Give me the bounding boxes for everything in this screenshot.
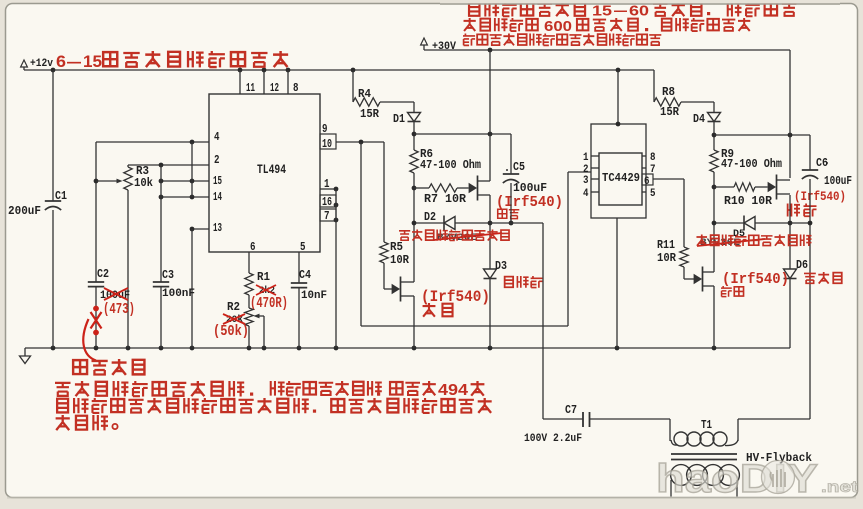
- node R7 junction: [412, 186, 417, 191]
- resistor R9: [710, 150, 718, 172]
- resistor R8: [653, 70, 655, 102]
- svg-text:D2: D2: [424, 210, 436, 224]
- wire C3 bottom: [160, 287, 162, 348]
- svg-text:(Irf540): (Irf540): [421, 288, 490, 306]
- wire C2 bottom (audio inject): [95, 287, 97, 348]
- power symbol +30V: [421, 38, 428, 45]
- svg-text:R8: R8: [662, 85, 675, 99]
- wire source A down: [489, 195, 491, 269]
- wire +30V to drain A: [489, 50, 491, 181]
- wire pin1 stub: [320, 188, 336, 190]
- wire C3 top: [160, 165, 162, 282]
- audio input mark: red dots and X on C2 wire: [93, 306, 99, 312]
- node +30V drop crossing: [488, 132, 493, 137]
- node drainC crossing: [788, 133, 793, 138]
- note bottom paragraph line2: [57, 399, 68, 413]
- wire pin4 line: [96, 141, 209, 143]
- node pin11 junction: [238, 68, 243, 73]
- svg-text:15R: 15R: [360, 107, 380, 121]
- transformer T1 primary: [669, 419, 671, 441]
- wire D6 to ground-rail end: [789, 279, 791, 349]
- watermark haoDIY.net: [656, 457, 859, 501]
- svg-text:100V 2.2uF: 100V 2.2uF: [524, 433, 582, 445]
- wire pin13 to ground: [191, 229, 193, 348]
- wire drain B up: [413, 278, 415, 282]
- diode D4: [708, 113, 721, 122]
- svg-text:.net: .net: [821, 479, 859, 496]
- wire C1 top: [52, 70, 54, 201]
- node 14a: [159, 195, 164, 200]
- wire pin13 line: [192, 228, 209, 230]
- svg-text:2: 2: [214, 154, 220, 167]
- transformer T1 core: [671, 453, 737, 455]
- wire pin10 to R5: [383, 142, 385, 242]
- note cheap C: [788, 204, 800, 217]
- wire pin14 line: [161, 196, 209, 198]
- svg-text:R1: R1: [257, 270, 270, 284]
- svg-text:6: 6: [56, 52, 66, 71]
- svg-text:D1: D1: [393, 112, 405, 126]
- potentiometer R3: [124, 167, 132, 190]
- svg-text:C6: C6: [816, 156, 828, 170]
- node D4/R9/C6 line: [712, 133, 717, 138]
- svg-text:8: 8: [293, 82, 299, 95]
- pin 16 box: [320, 195, 336, 207]
- wire R5 to gate B: [383, 263, 385, 289]
- svg-text:+12v: +12v: [30, 58, 53, 70]
- svg-text:1: 1: [583, 152, 589, 164]
- svg-text:R7 10R: R7 10R: [424, 193, 466, 206]
- svg-text:494: 494: [438, 382, 468, 399]
- svg-text:C4: C4: [299, 268, 311, 282]
- node ground junction C3: [159, 346, 164, 351]
- diode D5: [714, 222, 744, 224]
- node ground junction pins 1/16/7: [334, 346, 339, 351]
- svg-text:14: 14: [213, 191, 222, 204]
- wire +30V drop to drain C: [789, 50, 791, 178]
- wire D3 to ground: [489, 279, 491, 349]
- note audio input label: [73, 360, 87, 374]
- wire R3 bottom to ground: [127, 190, 129, 348]
- wire pin6 out: [653, 178, 684, 180]
- node pin2/C3 junction: [159, 163, 164, 168]
- wire R11 to gate D: [683, 267, 685, 279]
- svg-text:10nF: 10nF: [301, 290, 327, 302]
- svg-text:5: 5: [650, 188, 656, 200]
- svg-text:(50k): (50k): [213, 323, 249, 340]
- svg-text:—: —: [614, 3, 627, 20]
- op-amp U2 TC4429 outer loop: [591, 124, 646, 218]
- node C5/D2: [509, 221, 514, 226]
- wire source D to ground: [713, 286, 715, 348]
- wire R4 to D1: [380, 101, 414, 103]
- svg-text:C5: C5: [513, 160, 525, 174]
- wire supply drop to TC4429: [617, 70, 619, 124]
- wire +30V rail: [424, 49, 790, 51]
- wire pin10 output: [336, 141, 384, 143]
- svg-text:11: 11: [246, 82, 255, 95]
- ground: [24, 348, 26, 356]
- note fast recovery D3: [505, 277, 513, 288]
- wire pin4 drop to C2: [95, 142, 97, 282]
- wire C5 bottom: [510, 183, 512, 223]
- wire TC4429 gnd: [616, 218, 618, 348]
- note fast recovery D6: [804, 273, 816, 283]
- svg-text:60: 60: [629, 3, 649, 20]
- svg-text:200uF: 200uF: [8, 204, 41, 218]
- svg-text:D4: D4: [693, 112, 705, 126]
- wire pin15 line: [161, 180, 209, 182]
- svg-text:15: 15: [213, 175, 222, 188]
- node 15a: [159, 179, 164, 184]
- svg-text:47-100 Ohm: 47-100 Ohm: [420, 159, 481, 172]
- strike over C2 100uF: [104, 288, 128, 300]
- capacitor C5: [510, 134, 512, 174]
- svg-text:3: 3: [583, 175, 589, 187]
- op-amp U2 TC4429 body: [599, 153, 642, 205]
- node pin10 branch: [359, 140, 364, 145]
- svg-text:C2: C2: [97, 267, 109, 281]
- svg-text:10R: 10R: [657, 251, 677, 265]
- power symbol +12v: [21, 60, 28, 67]
- wire drain D up: [713, 270, 715, 272]
- node ground junction TC4429 gnd: [615, 346, 620, 351]
- diode D6 fast-recovery: [784, 269, 797, 279]
- svg-text:(Irf540): (Irf540): [794, 189, 846, 204]
- border clip over top annotation: [440, 0, 840, 3]
- svg-text:12: 12: [270, 82, 279, 95]
- transistor Q1 IRF540 upper-left: [469, 184, 476, 193]
- node 14b: [190, 195, 195, 200]
- svg-text:R11: R11: [657, 238, 675, 252]
- wire D2 to C7 drop: [455, 222, 543, 224]
- wire source C down: [789, 195, 791, 269]
- op-amp U1 TL494 body: [209, 94, 320, 252]
- svg-text:10R: 10R: [390, 253, 410, 267]
- wire T1 right feed: [738, 418, 810, 420]
- node pin8 junction: [286, 68, 291, 73]
- svg-text:100uF: 100uF: [513, 182, 547, 195]
- pin 8: [287, 70, 289, 94]
- node ground junction C4: [297, 346, 302, 351]
- wire D2 node down to C7: [542, 223, 544, 419]
- wire R2 wiper to ground: [263, 316, 265, 348]
- svg-text:8: 8: [650, 152, 656, 164]
- wire D1 to R6: [413, 122, 415, 151]
- resistor R6: [410, 150, 418, 173]
- transformer T1 secondary: [671, 465, 692, 486]
- node ground junction pin13: [190, 346, 195, 351]
- svg-text:(Irf540): (Irf540): [722, 271, 789, 288]
- node C1/rail junction: [51, 68, 56, 73]
- svg-text:C3: C3: [162, 268, 174, 282]
- svg-text:10k: 10k: [134, 176, 153, 190]
- transistor Q4 IRF540 lower-right: [694, 275, 701, 284]
- wire C4 bottom: [298, 288, 300, 348]
- resistor R1: [245, 273, 253, 295]
- resistor R4: [352, 70, 354, 102]
- wire R8 to D4: [681, 101, 714, 103]
- pin 11: [239, 70, 241, 94]
- svg-text:D6: D6: [796, 258, 808, 272]
- pin 12: [263, 70, 265, 94]
- wire R3 top: [127, 165, 129, 167]
- wire R9 down: [713, 172, 715, 270]
- wire source B to ground: [413, 296, 415, 348]
- node ground junction Q4 source: [712, 346, 717, 351]
- note cheap D: [721, 286, 732, 297]
- wire C7 to T1: [590, 418, 671, 420]
- note use high-power rectifier (right): [696, 235, 707, 246]
- node sourceA/D2: [488, 221, 493, 226]
- node ground junction R2: [247, 346, 252, 351]
- node sourceC/D5: [788, 221, 793, 226]
- svg-text:6: 6: [644, 176, 650, 188]
- svg-text:15: 15: [592, 3, 612, 20]
- node R9-line/D5: [712, 221, 717, 226]
- pin 6 (U2) box: [642, 174, 653, 185]
- resistor R10: [714, 186, 734, 188]
- note cheap B: [423, 303, 436, 317]
- node ground junction D3: [488, 346, 493, 351]
- svg-text:10: 10: [322, 138, 332, 151]
- wire pin5 stub: [298, 252, 300, 283]
- resistor R7: [414, 187, 429, 189]
- node D1/R6/C5 line: [412, 132, 417, 137]
- node 15b: [190, 179, 195, 184]
- capacitor C1: [45, 200, 61, 202]
- wire pin6 stub: [248, 252, 250, 273]
- wire R6 to R7 node: [413, 173, 415, 278]
- capacitor C4: [291, 282, 307, 284]
- node R6-line/D2: [412, 221, 417, 226]
- note bottom paragraph line1: [55, 383, 71, 396]
- note top-right line2: [464, 18, 476, 31]
- svg-text:C7: C7: [565, 403, 577, 417]
- svg-text:100nF: 100nF: [162, 288, 195, 300]
- wire node line to C5: [414, 133, 511, 135]
- svg-text:C1: C1: [55, 189, 67, 203]
- svg-text:R2: R2: [227, 300, 240, 314]
- resistor R11: [680, 247, 688, 267]
- wire tie pins 4/15/14: [191, 142, 193, 197]
- wire D4 to R9: [713, 122, 715, 151]
- svg-text:+30V: +30V: [432, 41, 456, 53]
- diode D2: [414, 222, 444, 224]
- svg-text:D3: D3: [495, 259, 507, 273]
- node pin4/vert junction: [190, 140, 195, 145]
- wire node line to C6: [714, 134, 810, 136]
- wire R1-R2: [248, 295, 250, 308]
- svg-text:TL494: TL494: [257, 163, 286, 177]
- wire output branch to TC4429 input rail: [360, 142, 362, 326]
- svg-text:16: 16: [322, 196, 332, 209]
- svg-text:600: 600: [544, 18, 572, 35]
- svg-text:TC4429: TC4429: [602, 172, 640, 185]
- wire pin2 line to R3: [128, 164, 209, 166]
- red arrow curve to audio inject point: [83, 319, 96, 361]
- potentiometer R2: [245, 308, 253, 326]
- pin 10 box: [320, 134, 336, 149]
- svg-text:—: —: [67, 52, 81, 71]
- svg-text:4: 4: [583, 188, 589, 200]
- resistor R5: [380, 242, 388, 263]
- capacitor C7: [543, 418, 583, 420]
- wire R2 bottom: [248, 326, 250, 348]
- node ground junction R3: [126, 346, 131, 351]
- wire +12v rail: [24, 69, 654, 71]
- svg-text:5: 5: [300, 241, 306, 254]
- svg-text:R10 10R: R10 10R: [724, 195, 772, 208]
- svg-text:4: 4: [214, 131, 220, 144]
- svg-text:6: 6: [250, 241, 256, 254]
- note bottom paragraph line3: [56, 415, 70, 430]
- svg-text:15: 15: [83, 52, 102, 71]
- node ground junction R2 wiper: [262, 346, 267, 351]
- transistor Q2 IRF540 lower-left: [392, 285, 399, 294]
- node pin12 junction: [262, 68, 267, 73]
- node ground junction Q2 source: [412, 346, 417, 351]
- svg-text:13: 13: [213, 222, 222, 235]
- pin 7 box: [320, 209, 336, 221]
- node R10 junction: [712, 185, 717, 190]
- diode D3 fast-recovery: [484, 269, 497, 279]
- node TC4429 supply junction: [616, 68, 621, 73]
- capacitor C6: [809, 135, 811, 170]
- note top-right line3: [463, 34, 475, 46]
- svg-text:7: 7: [324, 210, 330, 223]
- wire C6 bottom long drop: [809, 179, 811, 419]
- wire C1 bottom: [52, 210, 54, 348]
- svg-text:R5: R5: [390, 240, 403, 254]
- capacitor C2: [88, 281, 104, 283]
- note cheap A: [498, 209, 507, 218]
- svg-text:(473): (473): [103, 302, 135, 318]
- transistor Q3 IRF540 upper-right: [768, 183, 775, 192]
- note use high-power rectifier (left): [399, 231, 410, 240]
- svg-text:15R: 15R: [660, 105, 680, 119]
- note top-right line1: [469, 3, 479, 16]
- node +30V left-drain junction: [488, 48, 493, 53]
- node R4 junction: [351, 68, 356, 73]
- wire pins 1/16/7 to ground: [335, 189, 337, 348]
- wire pin6 to R11: [683, 179, 685, 247]
- node ground junction C1: [51, 346, 56, 351]
- svg-text:(470R): (470R): [250, 296, 288, 312]
- wire D5 to source C and C6 lead: [755, 222, 810, 224]
- svg-text:T1: T1: [701, 418, 712, 432]
- diode D1: [408, 113, 421, 122]
- node R3 wiper junction: [94, 179, 99, 184]
- node ground junction C2: [94, 346, 99, 351]
- svg-text:47-100 Ohm: 47-100 Ohm: [721, 158, 782, 171]
- svg-text:R4: R4: [358, 87, 371, 101]
- node D5/C6: [808, 221, 813, 226]
- svg-text:100uF: 100uF: [824, 175, 852, 188]
- wire ground rail: [25, 347, 790, 349]
